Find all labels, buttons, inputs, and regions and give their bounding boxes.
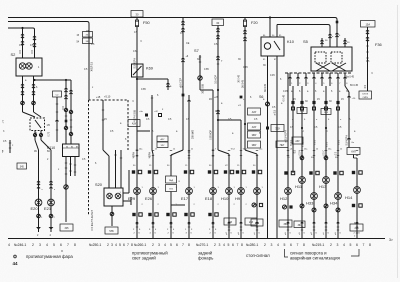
- connector pin x183 mid: [181, 58, 184, 59]
- tag box ignition b: [83, 38, 93, 44]
- pin ticks E17: [188, 223, 190, 225]
- svg-text:7: 7: [237, 243, 239, 247]
- wire K69 branch: [137, 78, 168, 80]
- svg-text:5: 5: [228, 243, 230, 247]
- connector ticks upper: [152, 150, 154, 152]
- svg-text:3: 3: [337, 243, 339, 247]
- svg-text:ЭБУ: ЭБУ: [275, 128, 280, 131]
- svg-text:АУП: АУП: [351, 151, 356, 154]
- lamp E18: [210, 188, 217, 195]
- wire branch 218-241: [218, 119, 241, 121]
- svg-text:0.45: 0.45: [270, 74, 275, 77]
- connector circles right block mid: [300, 156, 304, 160]
- svg-text:VC: VC: [225, 165, 228, 167]
- connector pin 349 low: [347, 138, 350, 139]
- svg-text:6: 6: [232, 243, 234, 247]
- connector ticks upper: [240, 150, 242, 152]
- tag box AZU right: [292, 137, 303, 144]
- relay K10 coil: [264, 43, 270, 49]
- wire column 302: [301, 86, 303, 238]
- svg-text:6 0.5: 6 0.5: [315, 139, 317, 145]
- pin ticks 314: [313, 229, 315, 231]
- tag box F20 b: [248, 131, 261, 138]
- relay K110 box: [63, 144, 80, 157]
- switch S2 box: [16, 58, 42, 76]
- svg-text:3: 3: [219, 243, 221, 247]
- wire column H14: [353, 155, 355, 159]
- connector ticks upper: [356, 150, 358, 152]
- svg-text:КО: КО: [209, 98, 212, 101]
- page border right: [397, 5, 399, 278]
- svg-text:0.85: 0.85: [133, 50, 138, 53]
- pin ticks E26: [152, 223, 154, 225]
- tag box 2K6 low: [350, 224, 363, 231]
- svg-text:S7: S7: [194, 48, 199, 53]
- connector squares H10: [224, 170, 227, 173]
- connector ticks E18: [212, 149, 214, 151]
- svg-text:6: 6: [176, 243, 178, 247]
- svg-text:5: 5: [350, 243, 352, 247]
- svg-text:a 0.5 ЧЕРН: a 0.5 ЧЕРН: [285, 130, 288, 143]
- svg-text:ЧЕРН: ЧЕРН: [150, 152, 152, 159]
- wire column 293: [292, 86, 294, 173]
- svg-text:АЗУ: АЗУ: [252, 111, 257, 114]
- tag box x152 b: [157, 142, 168, 148]
- tag box x257: [251, 219, 263, 226]
- svg-text:2: 2: [330, 243, 332, 247]
- tag box x288: [279, 220, 292, 227]
- connector pin marks lower: [212, 222, 215, 223]
- lamp symbol in S2 left: [19, 63, 25, 69]
- connector circle x257: [252, 203, 256, 207]
- connector pin marks lower: [170, 222, 173, 223]
- pin ticks x288: [287, 229, 289, 231]
- terminal tag 30 at F50: [131, 11, 143, 18]
- pin ticks 326: [325, 229, 327, 231]
- connector pins F20: [243, 30, 246, 31]
- lamp in S20 left: [107, 193, 113, 199]
- connector pin marks lower: [287, 222, 290, 223]
- svg-text:15A: 15A: [365, 22, 370, 26]
- connector ticks upper: [212, 150, 214, 152]
- wire column H9: [240, 120, 242, 238]
- svg-text:0.5: 0.5: [18, 49, 22, 53]
- connector pin marks lower: [188, 222, 191, 223]
- connector S20 out: [110, 212, 114, 216]
- svg-text:0.45: 0.45: [243, 66, 248, 69]
- svg-text:+5.10: +5.10: [104, 96, 111, 99]
- node K69 junction: [136, 78, 138, 80]
- switch S5 box: [311, 47, 352, 71]
- tag box H10 low: [224, 218, 236, 225]
- svg-text:2: 2: [152, 243, 154, 247]
- svg-text:0.5: 0.5: [30, 49, 34, 53]
- wire x128 drop: [127, 100, 129, 150]
- connector circle 338: [336, 208, 340, 212]
- bottom rule: [8, 238, 385, 240]
- connector squares E26 low: [148, 213, 151, 216]
- wire column 338: [337, 86, 339, 238]
- svg-text:E20: E20: [31, 206, 39, 211]
- svg-text:E17: E17: [181, 196, 189, 201]
- wire fog feed corner: [33, 28, 35, 33]
- svg-text:ЗАД: ЗАД: [169, 179, 174, 182]
- svg-text:ЭБУ: ЭБУ: [252, 144, 257, 147]
- svg-text:36 0.45: 36 0.45: [239, 74, 241, 82]
- svg-text:+15: +15: [96, 96, 101, 99]
- pin ticks 302: [301, 229, 303, 231]
- lamp H34: [335, 193, 342, 200]
- svg-text:6: 6: [290, 243, 292, 247]
- wire lamp column E17: [188, 95, 190, 238]
- switch S20 box: [104, 188, 123, 206]
- page ground mark: [14, 255, 17, 258]
- svg-text:6C: 6C: [47, 150, 50, 153]
- tag box AUP col: [347, 148, 360, 155]
- wire F50 column: [136, 18, 138, 233]
- connector pin marks lower: [325, 222, 328, 223]
- svg-text:a 0.5: a 0.5: [274, 109, 277, 115]
- svg-text:0.5 C: 0.5 C: [324, 150, 326, 156]
- wire jog 218-229: [218, 150, 229, 154]
- connector pins fog 1: [21, 34, 24, 35]
- lamp H11: [299, 177, 306, 184]
- connector squares E17: [184, 170, 187, 173]
- wire lamp column B: [50, 150, 52, 232]
- svg-text:7: 7: [363, 243, 365, 247]
- connector pins x183: [181, 21, 184, 22]
- wire S5 feed 322: [321, 38, 323, 47]
- svg-text:F20: F20: [251, 20, 259, 25]
- lamp E21: [48, 199, 55, 206]
- connector squares H9: [236, 170, 239, 173]
- svg-text:6: 6: [60, 243, 62, 247]
- svg-text:0.85: 0.85: [215, 110, 220, 113]
- connector square 293: [291, 101, 294, 104]
- connector pins F36: [366, 30, 369, 31]
- lamp H12: [285, 188, 292, 195]
- connector ticks upper: [301, 150, 303, 152]
- connector colB low: [49, 214, 53, 218]
- lamp symbol in S2 right: [26, 63, 32, 69]
- lamp E20: [35, 199, 42, 206]
- wire K110 feed 2: [70, 80, 72, 144]
- svg-text:5: 5: [284, 243, 286, 247]
- wire lamp column A: [38, 150, 40, 232]
- connector pin marks lower: [356, 222, 359, 223]
- connector pin marks lower: [313, 222, 316, 223]
- pin ticks H14 col: [356, 232, 358, 234]
- svg-text:3: 3: [39, 243, 41, 247]
- svg-text:АЗУ: АЗУ: [295, 140, 300, 143]
- connector pin marks lower: [301, 222, 304, 223]
- wire K110 out 2: [70, 160, 72, 176]
- svg-text:ЖЕЛ 0.5: ЖЕЛ 0.5: [91, 61, 94, 71]
- connector pin x218 low: [216, 110, 219, 111]
- pin S5 out 6: [329, 73, 331, 86]
- cluster box lower: [166, 185, 177, 192]
- svg-text:4: 4: [277, 243, 279, 247]
- wire bus 15 corner: [87, 22, 89, 32]
- tag box 3L6 a: [297, 108, 307, 114]
- caption bracket 3: [351, 249, 359, 256]
- node F20 junction: [244, 123, 246, 125]
- relay K110 pins bottom: [65, 157, 67, 161]
- connector square F50 col: [145, 114, 148, 117]
- wire ignition drop: [88, 32, 90, 101]
- cluster box upper: [166, 176, 177, 183]
- wire F50 stub right: [137, 130, 150, 132]
- svg-text:6: 6: [123, 243, 125, 247]
- connector squares H14 low: [352, 204, 355, 207]
- connector symbol K110 out: [64, 185, 68, 189]
- wire bus 30 top: [8, 17, 335, 19]
- tag box H9 low: [245, 218, 257, 225]
- wire bus 15: [8, 21, 87, 23]
- tag box mid F20: [248, 108, 261, 115]
- svg-text:8: 8: [131, 243, 133, 247]
- svg-text:S5: S5: [303, 39, 309, 44]
- svg-text:АЗУ: АЗУ: [161, 138, 166, 141]
- tag box x57: [53, 91, 62, 97]
- tag box x152 a: [157, 136, 168, 142]
- svg-text:2К6: 2К6: [354, 227, 359, 230]
- connector square x241: [240, 96, 243, 99]
- svg-text:фонарь: фонарь: [198, 256, 214, 261]
- svg-text:№260-1: №260-1: [134, 243, 146, 247]
- svg-text:0.5 ЧЕРН: 0.5 ЧЕРН: [134, 58, 137, 69]
- svg-text:44: 44: [13, 261, 19, 266]
- connector squares E18: [208, 170, 211, 173]
- connector pin marks lower: [256, 222, 259, 223]
- svg-text:4: 4: [164, 243, 166, 247]
- svg-text:АЗУ: АЗУ: [252, 126, 257, 129]
- pin S5 out 7: [337, 73, 339, 86]
- connector ticks upper: [228, 150, 230, 152]
- svg-text:+26: +26: [214, 96, 219, 99]
- svg-text:E18: E18: [205, 196, 213, 201]
- lamp H14: [354, 187, 361, 194]
- svg-text:0.45: 0.45: [283, 90, 288, 93]
- wire jog to col A: [35, 140, 39, 150]
- connector squares x171 low: [166, 213, 169, 216]
- svg-text:a 0.5: a 0.5: [327, 141, 329, 147]
- connector circles below S2: [21, 101, 25, 105]
- svg-text:8: 8: [369, 243, 371, 247]
- svg-text:ЗЛУ: ЗЛУ: [161, 145, 166, 147]
- terminal tag 30 at x218: [212, 19, 224, 26]
- caption bracket 2: [285, 249, 289, 257]
- svg-text:a 0.5: a 0.5: [303, 141, 305, 147]
- wire long x288: [287, 73, 289, 238]
- svg-text:СИГН: СИГН: [362, 97, 368, 99]
- control unit box: [359, 91, 372, 99]
- wire dashed run: [88, 100, 90, 215]
- svg-text:2: 2: [107, 243, 109, 247]
- connector circle pair x288: [283, 205, 287, 209]
- tag box 3L6 b: [321, 109, 331, 115]
- svg-text:345: 345: [65, 227, 70, 230]
- diode box K69: [132, 64, 144, 77]
- svg-text:АЗУ: АЗУ: [132, 123, 137, 126]
- pin ticks E29: [136, 223, 138, 225]
- stub far left: [9, 140, 11, 153]
- tag box F20 a: [248, 123, 261, 130]
- tag box x296: [294, 221, 305, 228]
- svg-text:5: 5: [170, 243, 172, 247]
- svg-text:4: 4: [343, 243, 345, 247]
- switch box fog dashed: [30, 118, 45, 131]
- svg-text:K69: K69: [146, 66, 153, 71]
- wire S20 feed 1b: [108, 156, 110, 188]
- svg-text:8: 8: [74, 243, 76, 247]
- wire link 171-189: [171, 204, 185, 206]
- wire S5 feed 337: [336, 30, 338, 47]
- svg-text:7: 7: [182, 243, 184, 247]
- connector pin colA: [37, 181, 40, 182]
- wire jog to col B: [41, 140, 51, 150]
- connector ticks upper: [170, 150, 172, 152]
- connector squares 338 mid: [333, 171, 336, 174]
- svg-text:E26: E26: [145, 196, 153, 201]
- svg-text:66 0.45: 66 0.45: [350, 84, 359, 87]
- svg-text:H10: H10: [221, 196, 229, 201]
- wire from S2 bottom 2: [33, 76, 35, 112]
- wire jog 183-171: [171, 150, 183, 155]
- lamp E26: [150, 188, 157, 195]
- tag box 345 left: [17, 163, 27, 169]
- connector ticks F50 col: [136, 149, 138, 151]
- connector ticks x57: [56, 103, 58, 105]
- pin ticks x171: [170, 223, 172, 225]
- connector squares 314 mid: [309, 171, 312, 174]
- wire fog drop 1: [22, 28, 24, 58]
- wire S20 stub right up: [123, 192, 129, 194]
- svg-text:7: 7: [127, 243, 129, 247]
- svg-text:№219-1: №219-1: [312, 243, 324, 247]
- tag box F20 c: [248, 141, 261, 148]
- svg-text:свет задний: свет задний: [132, 256, 156, 261]
- connector pin marks lower: [337, 222, 340, 223]
- connector ticks upper: [287, 150, 289, 152]
- wire fog drop 2: [34, 33, 36, 58]
- connector pins fog 2: [33, 36, 36, 37]
- connector circle 326: [324, 204, 328, 208]
- svg-text:2: 2: [32, 243, 34, 247]
- svg-text:7: 7: [67, 243, 69, 247]
- connector squares x257: [252, 170, 255, 173]
- wire x152 upper: [151, 95, 153, 150]
- lamp E29: [134, 188, 141, 195]
- pin ticks E18: [212, 223, 214, 225]
- wire column 326: [325, 86, 327, 238]
- svg-text:0.5: 0.5: [61, 105, 65, 109]
- wire F20 column: [244, 18, 246, 151]
- svg-text:4: 4: [223, 243, 225, 247]
- svg-text:F36: F36: [375, 42, 382, 47]
- connector marks K110 feed: [64, 108, 67, 111]
- wire stub x57: [56, 97, 58, 142]
- svg-text:8: 8: [188, 243, 190, 247]
- connector square x183: [182, 94, 185, 97]
- svg-text:№270-1: №270-1: [196, 243, 208, 247]
- svg-text:противотуманная фара: противотуманная фара: [26, 254, 73, 259]
- svg-text:№250-1: №250-1: [89, 243, 101, 247]
- svg-text:364: 364: [284, 223, 289, 226]
- wire bus corner right: [335, 18, 337, 31]
- lamp H10: [226, 188, 233, 195]
- svg-text:ЧЕРН: ЧЕРН: [134, 152, 136, 159]
- switch S5 cross wires: [316, 63, 330, 71]
- wire K110 out 1: [65, 160, 67, 222]
- tag box x277: [276, 141, 288, 148]
- svg-text:8: 8: [241, 243, 243, 247]
- connector squares E29: [132, 170, 135, 173]
- pin S5 out 2: [297, 73, 299, 86]
- svg-text:H12: H12: [280, 196, 288, 201]
- svg-text:НЕТ: НЕТ: [280, 145, 285, 147]
- lamp H33: [311, 193, 318, 200]
- connector pins below S2: [21, 84, 24, 85]
- wire lamp column E26: [152, 154, 154, 238]
- wire S20 feed 3: [120, 150, 122, 188]
- wire jog into switch 2: [34, 112, 42, 117]
- connector pins x218: [216, 28, 219, 29]
- svg-text:0.5 КОР: 0.5 КОР: [215, 75, 218, 84]
- svg-text:K110: K110: [47, 146, 55, 150]
- svg-text:0.85: 0.85: [141, 88, 146, 91]
- ground colB: [49, 224, 54, 230]
- svg-text:F50: F50: [143, 20, 151, 25]
- wire S20 stub right down: [123, 200, 131, 202]
- svg-text:0.85 КОР: 0.85 КОР: [211, 130, 213, 140]
- connector circle 302: [300, 204, 304, 208]
- lamp x257: [254, 188, 261, 195]
- svg-text:4: 4: [46, 243, 48, 247]
- lamp H13: [323, 177, 330, 184]
- svg-text:6 0.45: 6 0.45: [284, 94, 286, 101]
- svg-text:5: 5: [53, 243, 55, 247]
- connector pins x218 mid: [216, 56, 219, 57]
- caption bracket 1: [61, 250, 63, 252]
- svg-text:H34: H34: [330, 201, 338, 206]
- wire S2 side link: [35, 79, 72, 81]
- svg-text:H33: H33: [306, 201, 314, 206]
- wire K110 feed: [65, 80, 67, 144]
- wire jog into switch 1: [23, 112, 36, 117]
- connector squares E26: [148, 170, 151, 173]
- wire bus drop to K10: [269, 18, 271, 38]
- svg-text:E29: E29: [128, 196, 136, 201]
- svg-text:0.5 Ч: 0.5 Ч: [300, 150, 302, 156]
- wire lamp column x171: [170, 155, 172, 176]
- svg-text:0.75: 0.75: [36, 131, 38, 136]
- connector square x152: [159, 114, 162, 117]
- svg-text:3: 3: [271, 243, 273, 247]
- tag box F50 col: [128, 120, 140, 127]
- svg-text:345: 345: [20, 165, 25, 168]
- svg-text:K10: K10: [287, 39, 295, 44]
- wire K110 out 3: [74, 160, 76, 176]
- pin S5 out 8: [344, 73, 346, 86]
- connector pin marks lower: [136, 222, 139, 223]
- connector square K10 out: [266, 127, 269, 130]
- connector squares 293 mid: [284, 171, 287, 174]
- node x218 junction: [217, 89, 219, 91]
- svg-text:ЧЕРН 0.85: ЧЕРН 0.85: [134, 109, 137, 121]
- svg-text:С: С: [326, 130, 328, 133]
- pin ticks 338: [337, 229, 339, 231]
